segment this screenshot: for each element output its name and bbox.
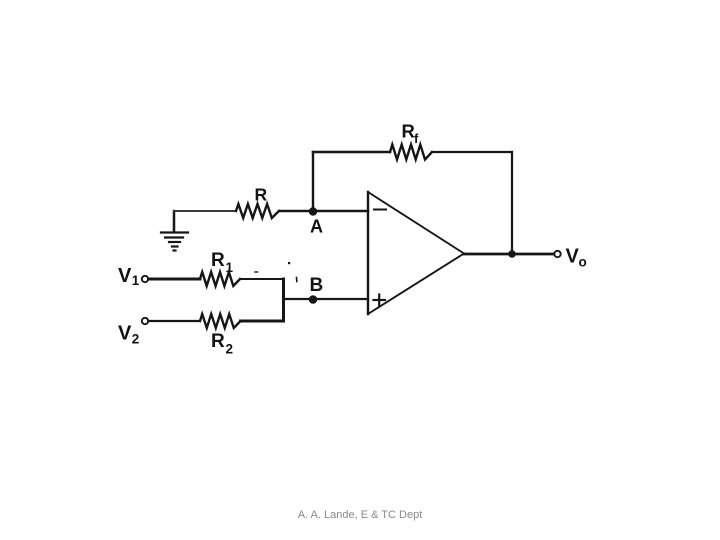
resistor R2 [200, 314, 241, 328]
svg-text:V: V [566, 246, 580, 268]
wire feedback right vertical down to output [511, 152, 513, 254]
wire ground to resistor R [174, 210, 236, 212]
wire V1 to R1 [149, 278, 201, 281]
resistor R1 [200, 272, 240, 286]
wire R2 to junction [241, 320, 284, 323]
svg-text:2: 2 [132, 332, 140, 347]
wire op-amp output [464, 253, 554, 256]
wire feedback top left [313, 151, 390, 154]
svg-text:R: R [211, 250, 225, 271]
wire node A up to feedback [312, 152, 314, 211]
node A [309, 207, 317, 215]
caption footer [0, 509, 720, 522]
ground [161, 233, 188, 251]
wire R to op-amp inverting input through node A [279, 210, 368, 212]
wire ground stub vertical [173, 211, 176, 232]
wire junction to op-amp non-inverting input through node B [284, 298, 369, 300]
svg-text:B: B [310, 275, 324, 296]
node B [309, 295, 318, 304]
svg-text:2: 2 [226, 342, 234, 357]
terminal V1 [142, 276, 148, 282]
op-amp minus input mark [374, 209, 386, 211]
wire feedback top right [432, 151, 512, 153]
svg-text:R: R [402, 121, 415, 142]
wire junction vertical [282, 279, 285, 321]
svg-text:1: 1 [132, 273, 140, 288]
resistor R [236, 204, 279, 218]
speck dash [255, 271, 258, 273]
svg-text:1: 1 [226, 260, 234, 275]
svg-text:V: V [118, 265, 132, 287]
svg-text:R: R [255, 185, 268, 205]
svg-text:f: f [414, 131, 419, 146]
terminal V2 [142, 318, 148, 324]
svg-text:R: R [211, 331, 225, 352]
resistor Rf [390, 145, 432, 160]
speck tick [296, 278, 298, 282]
wire R1 to junction [240, 278, 284, 280]
svg-text:o: o [579, 255, 587, 270]
output node [508, 250, 516, 258]
terminal Vo [554, 251, 560, 257]
op-amp U1 [368, 192, 464, 314]
wire V2 to R2 [149, 320, 201, 322]
op-amp plus input mark [374, 295, 386, 306]
speck dot [288, 262, 290, 264]
svg-text:A: A [310, 217, 323, 237]
svg-text:V: V [118, 323, 132, 345]
